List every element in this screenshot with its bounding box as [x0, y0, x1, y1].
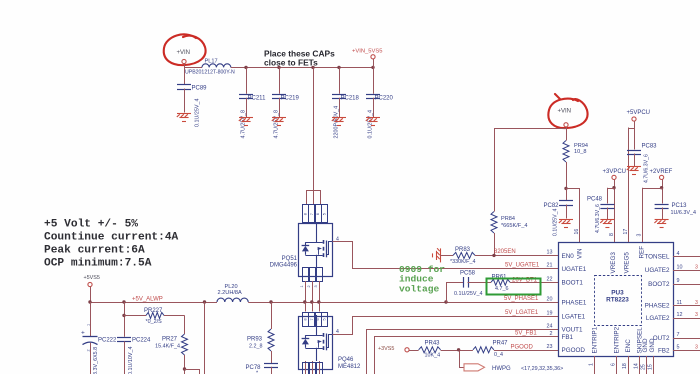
ground under PC89 [177, 114, 191, 122]
svg-text:11: 11 [677, 300, 683, 306]
IC PU3 body [559, 243, 674, 357]
svg-text:14: 14 [634, 363, 640, 369]
svg-text:PC211: PC211 [248, 95, 267, 101]
svg-text:25: 25 [641, 364, 647, 370]
svg-text:3: 3 [695, 265, 698, 271]
svg-text:18: 18 [622, 363, 628, 369]
wires right side pins [673, 256, 700, 258]
junction node top rail at PC219 [277, 66, 280, 69]
svg-text:8: 8 [303, 213, 307, 215]
resistor PR84 [491, 212, 497, 234]
svg-text:OCP minimum:7.5A: OCP minimum:7.5A [44, 258, 152, 270]
svg-text:19: 19 [547, 310, 553, 316]
svg-text:ENTRIP1: ENTRIP1 [592, 326, 599, 353]
svg-text:15.4K/F_4: 15.4K/F_4 [155, 343, 180, 349]
junction node top rail at PC218 [337, 66, 340, 69]
junction node top rail at PC211 [244, 66, 247, 69]
svg-text:HWPG: HWPG [492, 366, 511, 372]
transistor PQ51 body [299, 224, 333, 277]
svg-text:17: 17 [623, 229, 629, 235]
svg-text:GND: GND [642, 338, 649, 352]
svg-text:10K_4: 10K_4 [425, 353, 441, 359]
svg-text:10: 10 [677, 264, 683, 270]
svg-text:<17,29,32,35,36>: <17,29,32,35,36> [521, 366, 563, 372]
resistor PR27 [182, 334, 188, 355]
transistor PQ46 bottom pin boxes [303, 363, 309, 374]
svg-text:Countinue current:4A: Countinue current:4A [44, 232, 179, 244]
svg-text:8205EN: 8205EN [494, 249, 516, 255]
junction node below PR27 [183, 367, 186, 370]
svg-text:2200P/50V_4: 2200P/50V_4 [334, 106, 340, 139]
svg-text:PQ51: PQ51 [282, 256, 298, 262]
svg-text:PR47: PR47 [493, 340, 509, 346]
wires phase rail to PQ46 drain pins [305, 302, 307, 312]
inductor PL17 [202, 64, 231, 68]
capacitor PC78 [264, 364, 278, 368]
junction nodes phase rail [269, 300, 272, 303]
green annotation box around PR61 [487, 279, 541, 295]
wire +3VS5 to PR43 [409, 350, 419, 352]
svg-text:PGOOD: PGOOD [511, 344, 534, 350]
svg-text:5: 5 [323, 318, 327, 320]
svg-text:3.3V_6X5.8: 3.3V_6X5.8 [93, 347, 99, 374]
wire +5V_ALWP rail [90, 302, 217, 304]
capacitor PC58 [464, 277, 469, 288]
svg-text:UGATE2: UGATE2 [645, 267, 670, 274]
red marker circle around left +VIN [164, 34, 206, 65]
svg-text:VREG5: VREG5 [624, 252, 631, 274]
svg-text:3: 3 [695, 300, 698, 306]
svg-text:5V_LGATE1: 5V_LGATE1 [505, 310, 539, 316]
transistor PQ46 mosfet symbol [316, 315, 318, 335]
svg-text:VIN: VIN [577, 248, 584, 259]
svg-text:5: 5 [677, 345, 680, 351]
ground flag sideways at PR83 [433, 248, 441, 262]
red marker circle around right +VIN [548, 94, 587, 128]
svg-text:FB1: FB1 [562, 334, 574, 341]
svg-text:1: 1 [300, 285, 304, 287]
svg-text:+VIN: +VIN [177, 50, 191, 56]
svg-text:+5VPCU: +5VPCU [627, 110, 651, 116]
svg-text:4.7_6: 4.7_6 [495, 286, 509, 292]
transistor PQ51 top pin boxes (8 7 6 5) [303, 205, 309, 223]
svg-text:LGATE1: LGATE1 [562, 313, 586, 320]
svg-text:PR84: PR84 [501, 216, 515, 222]
svg-text:ENC: ENC [625, 339, 632, 353]
resistor PR61 [491, 279, 510, 285]
wire phase to PC58 [447, 283, 464, 303]
svg-text:1: 1 [86, 324, 90, 326]
svg-text:PC78: PC78 [245, 365, 261, 371]
svg-text:13: 13 [547, 250, 553, 256]
svg-text:PC89: PC89 [192, 86, 208, 92]
svg-text:2: 2 [550, 331, 553, 337]
IC PU3 inner dashed outline [595, 276, 642, 326]
capacitor PC89 [177, 85, 191, 90]
svg-text:PC82: PC82 [543, 203, 559, 209]
off-page connector HWPG [464, 364, 485, 371]
svg-text:+VIN: +VIN [558, 109, 572, 115]
svg-text:PC224: PC224 [132, 337, 151, 343]
svg-text:22: 22 [547, 277, 553, 283]
capacitor PC48 [608, 188, 615, 190]
svg-text:PC218: PC218 [341, 95, 360, 101]
svg-text:RT8223: RT8223 [606, 297, 629, 304]
wire VIN node to chip VIN pin [567, 189, 580, 243]
svg-text:close to FETs: close to FETs [264, 58, 318, 68]
svg-text:voltage: voltage [399, 283, 440, 294]
svg-text:*0_2/S: *0_2/S [146, 319, 163, 325]
svg-text:PU3: PU3 [611, 290, 624, 297]
ground under PC48 [600, 220, 614, 228]
resistor PR227 (0 ohm bypass) [122, 314, 125, 317]
capacitor PC220 [373, 67, 375, 93]
svg-text:5V_UGATE1: 5V_UGATE1 [505, 262, 540, 268]
svg-text:PC83: PC83 [642, 143, 658, 149]
transistor PQ51 bottom pin boxes (1 2 3) [303, 268, 309, 282]
svg-text:7: 7 [677, 332, 680, 338]
svg-text:*330K/F_4: *330K/F_4 [450, 259, 475, 265]
svg-text:ME4812: ME4812 [338, 364, 361, 370]
svg-text:+2VREF: +2VREF [650, 169, 673, 175]
svg-text:+3VS5: +3VS5 [378, 346, 394, 352]
svg-text:8: 8 [609, 233, 615, 236]
svg-text:PQ46: PQ46 [338, 357, 354, 363]
svg-text:+5V_ALWP: +5V_ALWP [132, 296, 163, 302]
svg-text:UPB201212T-800Y-N: UPB201212T-800Y-N [185, 70, 235, 76]
svg-text:3: 3 [695, 345, 698, 351]
wire PQ46 gate to LGATE1 (net 5V_LGATE1) [333, 317, 559, 335]
capacitor PC211 [246, 67, 248, 93]
svg-text:7: 7 [310, 318, 314, 320]
resistor PR47 [473, 347, 494, 353]
svg-text:*665K/F_4: *665K/F_4 [501, 223, 527, 229]
svg-text:Peak current:6A: Peak current:6A [44, 245, 145, 257]
ground under PC13 [654, 220, 668, 228]
wire branch to bottom edge [185, 370, 200, 374]
svg-text:8: 8 [303, 318, 307, 320]
svg-text:LGATE2: LGATE2 [646, 315, 670, 322]
svg-text:2: 2 [86, 349, 90, 351]
svg-text:EN0: EN0 [562, 253, 575, 260]
transistor PQ51 mosfet symbol [316, 222, 318, 242]
svg-text:DMG4496: DMG4496 [270, 263, 298, 269]
wire +5VPCU to VREG5 pin [629, 128, 635, 130]
svg-text:21: 21 [547, 263, 553, 269]
svg-text:0_4: 0_4 [494, 352, 503, 358]
svg-text:5: 5 [323, 213, 327, 215]
wire top rail left segment [184, 67, 202, 69]
wire VOUT1 net [367, 330, 559, 374]
resistor PR83 [453, 252, 475, 258]
svg-text:3: 3 [695, 312, 698, 318]
svg-text:UGATE1: UGATE1 [562, 266, 587, 273]
svg-text:+5VS5: +5VS5 [84, 275, 100, 281]
svg-text:5V_FB1: 5V_FB1 [515, 331, 537, 337]
svg-text:PHASE1: PHASE1 [562, 300, 587, 307]
svg-text:0.1U/25V_4: 0.1U/25V_4 [553, 208, 559, 236]
svg-text:10_8: 10_8 [574, 149, 586, 155]
transistor PQ46 top pin boxes (8 7 6 5) [303, 313, 309, 327]
svg-text:PC220: PC220 [375, 95, 394, 101]
svg-text:+: + [81, 330, 85, 337]
svg-text:+3VPCU: +3VPCU [603, 169, 627, 175]
svg-text:4.7U/6.3V_6: 4.7U/6.3V_6 [595, 204, 601, 233]
svg-text:PC222: PC222 [98, 337, 117, 343]
svg-text:15: 15 [648, 364, 654, 370]
svg-text:PC13: PC13 [672, 203, 688, 209]
svg-text:+VIN_5VS5: +VIN_5VS5 [352, 49, 382, 55]
svg-text:4.7U/25V_8: 4.7U/25V_8 [241, 110, 247, 138]
VIN node junction [564, 187, 567, 190]
inductor PL20 [217, 298, 248, 302]
wires bottom pins [594, 356, 596, 374]
svg-text:BOOT2: BOOT2 [648, 281, 670, 288]
svg-text:PGOOD: PGOOD [562, 347, 586, 354]
svg-text:4: 4 [677, 251, 680, 257]
svg-text:6: 6 [316, 213, 320, 215]
svg-text:6: 6 [611, 363, 617, 366]
resistor PR93 [271, 302, 273, 329]
svg-text:+5 Volt +/- 5%: +5 Volt +/- 5% [44, 219, 138, 231]
svg-text:ENTRIP2: ENTRIP2 [614, 326, 621, 353]
svg-text:TONSEL: TONSEL [644, 254, 670, 261]
svg-text:2.2_8: 2.2_8 [249, 343, 263, 349]
svg-text:3: 3 [314, 285, 318, 287]
svg-text:PC58: PC58 [460, 270, 476, 276]
wire PQ51 gate to UGATE1 (net 5V_UGATE1) [333, 242, 559, 269]
ground under PC83 [627, 167, 641, 175]
wire +VIN down to PR94 [566, 127, 568, 141]
svg-text:9: 9 [677, 278, 680, 284]
svg-text:2.2UH/8A: 2.2UH/8A [218, 290, 243, 296]
svg-text:PR43: PR43 [425, 340, 441, 346]
wire stub down at x204 [204, 302, 206, 374]
capacitor PC224 [124, 302, 126, 337]
svg-text:4.7U/25V_8: 4.7U/25V_8 [274, 110, 280, 138]
svg-text:FB2: FB2 [658, 347, 670, 354]
capacitor PC83 [627, 151, 641, 155]
svg-text:3: 3 [636, 234, 642, 237]
wires PQ46 source pins to bottom edge [305, 361, 307, 374]
wire FB1 net [375, 337, 559, 374]
wire EN net to chip pin 13 [475, 255, 558, 257]
svg-text:0.1U/10V_4: 0.1U/10V_4 [128, 347, 134, 374]
svg-text:PR93: PR93 [247, 337, 263, 343]
svg-text:VREG3: VREG3 [610, 252, 617, 274]
svg-text:0.1U/25V_4: 0.1U/25V_4 [454, 291, 482, 297]
svg-text:1U/6.3V_4: 1U/6.3V_4 [671, 210, 696, 216]
junction +2VREF / wire to REF pin [660, 186, 663, 189]
junction node EN divider [492, 254, 495, 257]
capacitor PC222 (electrolytic) [90, 302, 92, 337]
wire to HWPG connector [460, 351, 465, 368]
wire phase rail to PHASE1 [248, 302, 558, 304]
svg-text:PR94: PR94 [574, 143, 588, 149]
svg-text:20: 20 [547, 296, 553, 302]
transistor PQ46 body [299, 317, 333, 370]
svg-text:1: 1 [589, 363, 595, 366]
ground under PC220 [366, 118, 380, 126]
junction +3VPCU [612, 186, 615, 189]
svg-text:7: 7 [310, 213, 314, 215]
junction node PGOOD/HWPG [457, 348, 460, 351]
resistor PR94 [563, 141, 569, 163]
svg-text:PC219: PC219 [281, 95, 300, 101]
svg-text:24: 24 [547, 323, 553, 329]
capacitor PC218 [339, 67, 341, 93]
capacitor PC13 [655, 205, 669, 209]
svg-text:PHASE2: PHASE2 [645, 303, 670, 310]
junction node rail x204 [203, 300, 206, 303]
svg-text:16: 16 [574, 229, 580, 235]
svg-text:0.1U/25V_4: 0.1U/25V_4 [368, 110, 374, 138]
svg-text:GND: GND [649, 338, 656, 352]
svg-text:5V_PHASE1: 5V_PHASE1 [504, 296, 539, 302]
resistor PR43 [419, 347, 441, 353]
capacitor PC219 [279, 67, 281, 93]
junction node rail at PC224 branch [122, 300, 125, 303]
svg-text:VOUT1: VOUT1 [562, 326, 583, 333]
ground under PC219 [272, 118, 286, 126]
wire top rail down to PQ51 drain pins [311, 66, 314, 69]
svg-text:23: 23 [547, 344, 553, 350]
wire ground to PR83 [440, 255, 453, 257]
wire PGOOD to chip pin 23 [494, 350, 558, 352]
svg-text:2: 2 [307, 285, 311, 287]
svg-text:PL17: PL17 [205, 59, 218, 65]
svg-text:PC48: PC48 [587, 197, 603, 203]
wire BOOT1 to chip pin 22 [510, 282, 558, 284]
svg-text:BOOT1: BOOT1 [562, 280, 584, 287]
wire +VIN branch left to PR84 [494, 128, 566, 130]
svg-text:PR227: PR227 [144, 308, 163, 314]
ground under PC82 [559, 220, 573, 228]
svg-text:12: 12 [677, 312, 683, 318]
wire +VIN down to rail and PC89 [184, 64, 186, 85]
svg-text:0.1U/25V_4: 0.1U/25V_4 [195, 99, 201, 127]
wire top rail to +VIN_5VS5 [231, 67, 373, 69]
capacitor PC82 [566, 188, 568, 200]
ground under PC211 [239, 118, 253, 126]
svg-text:PR27: PR27 [162, 336, 178, 342]
ground under PC218 [332, 118, 346, 126]
svg-text:PR83: PR83 [455, 247, 471, 253]
junction node top rail at PC220 [371, 66, 374, 69]
